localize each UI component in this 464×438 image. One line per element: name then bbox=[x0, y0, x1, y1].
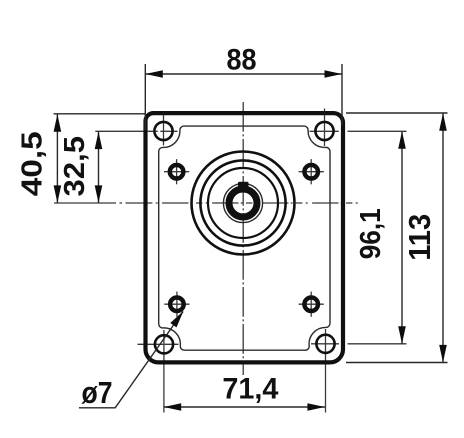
dimension 40,5 bottom arrow bbox=[54, 185, 62, 203]
dimension 88 line bbox=[145, 73, 342, 75]
flange inner contour with scallops around corner holes bbox=[159, 126, 330, 350]
dimension 32,5 top arrow bbox=[95, 132, 103, 150]
dimension 96,1 bottom arrow bbox=[398, 326, 406, 344]
extension line 88 right bbox=[341, 64, 343, 126]
shaft chamfer circle bbox=[223, 183, 262, 222]
centerline hole BR vertical (71,4 right extension) bbox=[325, 329, 327, 413]
small hole bottom-right bbox=[304, 297, 318, 311]
shaft key bbox=[238, 182, 249, 192]
small hole top-left bbox=[170, 165, 184, 179]
vertical centerline through shaft center bbox=[242, 102, 244, 375]
dimension 40,5 top arrow bbox=[54, 114, 62, 132]
svg-text:96,1: 96,1 bbox=[355, 208, 387, 259]
crosshair small hole top-left bbox=[164, 159, 189, 184]
corner hole BL bbox=[155, 335, 173, 353]
extension line 113 top bbox=[346, 112, 448, 114]
extension line 113 bottom bbox=[346, 362, 448, 364]
pilot boss outer circle bbox=[192, 152, 295, 255]
dimension 71,4 left arrow bbox=[164, 403, 182, 411]
horizontal centerline through shaft center bbox=[54, 202, 146, 204]
centerline hole TR horizontal (96,1 top extension) bbox=[310, 130, 339, 132]
leader arrow o7 bbox=[170, 311, 183, 328]
dimension 113 line bbox=[442, 113, 444, 362]
pilot boss inner circle bbox=[208, 168, 278, 238]
centerline hole TR vertical bbox=[324, 109, 326, 147]
dimension 88 right arrow bbox=[325, 70, 343, 78]
corner hole TR bbox=[315, 122, 333, 140]
small hole bottom-left bbox=[170, 297, 184, 311]
svg-text:113: 113 bbox=[403, 214, 437, 261]
svg-text:32,5: 32,5 bbox=[59, 136, 91, 197]
dimension 40,5 line bbox=[56, 114, 58, 203]
dimension 113 bottom arrow bbox=[439, 345, 447, 363]
crosshair small hole bottom-left bbox=[164, 292, 189, 317]
small hole top-right bbox=[304, 165, 318, 179]
dimension 32,5 bottom arrow bbox=[95, 185, 103, 203]
shaft ring bbox=[229, 189, 257, 217]
centerline hole TL vertical bbox=[163, 113, 165, 146]
pilot boss middle circle bbox=[200, 160, 285, 245]
centerline hole TL horizontal (32,5 extension) bbox=[95, 130, 177, 132]
svg-text:88: 88 bbox=[227, 44, 257, 77]
dimension 96,1 top arrow bbox=[398, 131, 406, 149]
dimension 113 top arrow bbox=[439, 113, 447, 131]
centerline hole BL vertical (71,4 left extension) bbox=[163, 330, 165, 413]
dimension 71,4 line bbox=[164, 406, 325, 408]
dimension 96,1 line bbox=[401, 131, 403, 344]
flange outer outline bbox=[146, 113, 344, 362]
centerline hole BR horizontal (96,1 bottom extension) bbox=[311, 343, 339, 345]
dimension 88 left arrow bbox=[145, 70, 163, 78]
svg-text:ø7: ø7 bbox=[82, 375, 113, 410]
corner hole BR bbox=[316, 335, 334, 353]
svg-text:40,5: 40,5 bbox=[17, 131, 49, 196]
crosshair small hole bottom-right bbox=[299, 292, 324, 317]
svg-text:71,4: 71,4 bbox=[222, 372, 279, 405]
extension line plate top left bbox=[54, 113, 147, 115]
dimension 32,5 line bbox=[98, 132, 100, 203]
extension line 88 left bbox=[144, 64, 146, 130]
centerline hole BL horizontal bbox=[138, 343, 179, 345]
crosshair small hole top-right bbox=[299, 159, 324, 184]
corner hole TL bbox=[154, 122, 172, 140]
dimension 71,4 right arrow bbox=[307, 403, 325, 411]
leader line o7 bbox=[79, 312, 183, 408]
